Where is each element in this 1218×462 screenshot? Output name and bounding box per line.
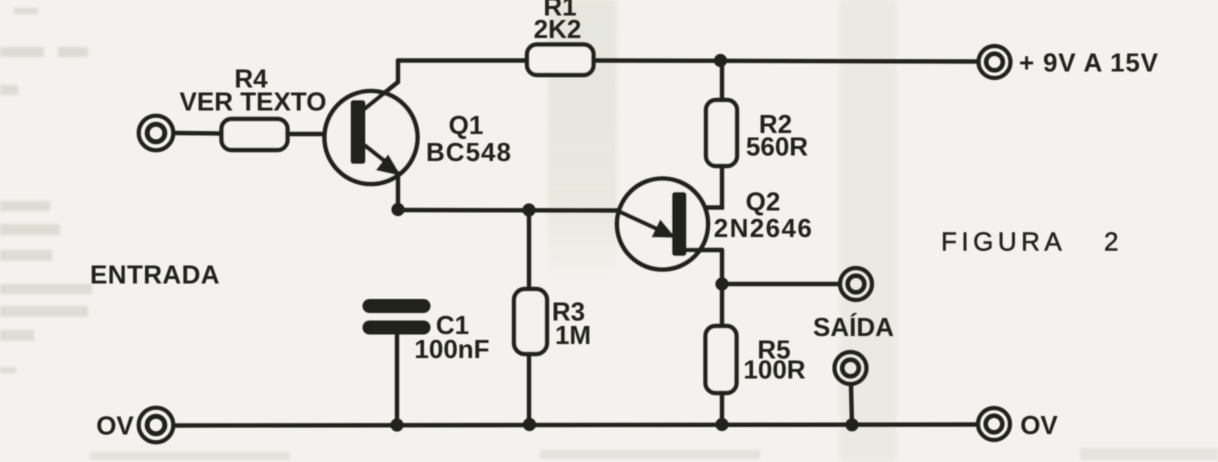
svg-text:2N2646: 2N2646	[714, 213, 813, 243]
svg-text:FIGURA: FIGURA	[941, 227, 1066, 257]
svg-text:SAÍDA: SAÍDA	[813, 312, 894, 342]
wire: lower SAIDA terminal to bottom rail	[851, 385, 852, 426]
node: junction bottom rail / C1	[390, 418, 403, 431]
wire: Q1 emitter drop	[396, 173, 400, 211]
svg-text:2: 2	[1104, 227, 1118, 257]
transistor Q2	[617, 179, 722, 270]
resistor R2	[706, 100, 737, 166]
node: junction mid rail / R3	[522, 203, 535, 216]
label FIGURA 2	[941, 227, 1118, 257]
svg-text:ENTRADA: ENTRADA	[90, 260, 220, 290]
svg-text:Q2: Q2	[746, 187, 781, 217]
node: junction output node	[715, 277, 728, 290]
wire: R4 to Q1 base	[288, 132, 353, 136]
wire: bottom rail	[175, 425, 978, 426]
wire: Q2 base1 to output node	[720, 250, 724, 284]
node: junction bottom rail / R5	[715, 418, 728, 431]
node: junction top rail / R2	[714, 54, 727, 67]
svg-text:100nF: 100nF	[414, 334, 489, 364]
wire: top rail right segment	[594, 61, 978, 62]
wire: R2 to Q2 base2	[687, 166, 722, 208]
scan band right	[840, 0, 896, 462]
svg-text:OV: OV	[1020, 410, 1058, 440]
wire: R3 to bottom rail	[527, 354, 531, 425]
node: junction Q1 emitter / C1	[391, 203, 404, 216]
scan band center	[548, 0, 617, 280]
resistor R1	[527, 45, 594, 76]
wire: mid rail junction down to R3	[527, 210, 531, 289]
wire: top rail left segment	[398, 58, 528, 62]
resistor R4	[222, 119, 288, 150]
capacitor C1	[363, 299, 431, 335]
svg-text:1M: 1M	[555, 320, 591, 350]
svg-text:560R: 560R	[746, 132, 808, 162]
svg-text:+ 9V A 15V: + 9V A 15V	[1019, 48, 1159, 78]
svg-text:Q1: Q1	[449, 110, 484, 140]
node: junction bottom rail / R3	[523, 418, 536, 431]
wire: output node down to R5	[720, 284, 724, 326]
terminal: SAIDA upper	[840, 268, 872, 300]
svg-text:100R: 100R	[743, 355, 805, 385]
node: junction bottom rail / SAIDA	[845, 418, 858, 431]
svg-text:VER TEXTO: VER TEXTO	[180, 87, 327, 117]
svg-text:2K2: 2K2	[534, 14, 582, 44]
wire: input terminal to R4	[175, 131, 222, 136]
terminal: +9V supply	[979, 46, 1011, 78]
terminal: input jack	[139, 116, 174, 151]
wire: Q1 collector riser	[396, 61, 400, 83]
svg-text:BC548: BC548	[426, 137, 512, 167]
terminal: 0V right	[978, 408, 1010, 440]
resistor R5	[706, 326, 737, 393]
wire: mid rail to Q2 emitter	[398, 208, 619, 213]
transistor Q1	[325, 82, 418, 184]
wire: output node to upper SAIDA terminal	[722, 282, 839, 286]
terminal: 0V left	[139, 408, 174, 443]
resistor R3	[514, 289, 547, 354]
wire: R5 to bottom rail	[720, 393, 724, 425]
terminal: SAIDA lower	[835, 352, 867, 384]
svg-text:OV: OV	[96, 411, 134, 441]
wire: rail junction to R2	[720, 61, 724, 100]
wire: C1 bottom to bottom rail	[395, 334, 399, 425]
